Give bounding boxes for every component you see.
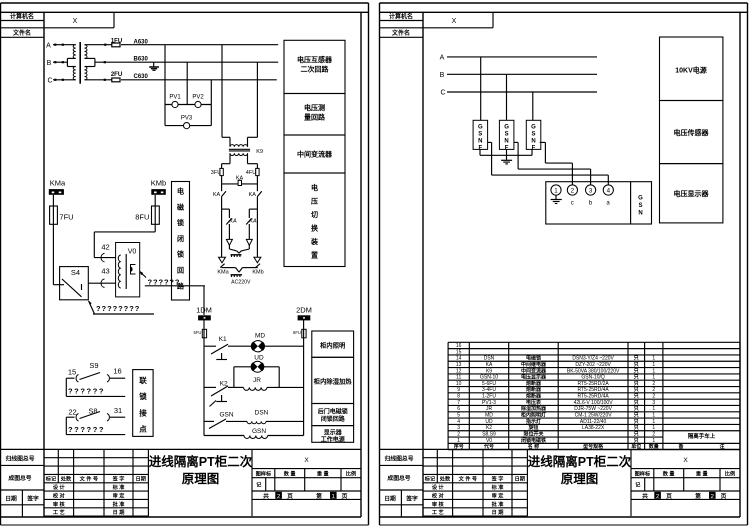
svg-text:柜内照明灯: 柜内照明灯 xyxy=(521,412,546,419)
svg-text:4: 4 xyxy=(607,187,611,194)
sheet 2 title block archive-no cell xyxy=(380,464,424,466)
transformer K9 secondary winding xyxy=(230,153,248,155)
contact 43 plug xyxy=(88,282,115,284)
svg-text:8FU: 8FU xyxy=(135,213,149,222)
wire voltmeter top bus xyxy=(165,104,211,106)
svg-text:4: 4 xyxy=(457,419,460,425)
svg-text:c: c xyxy=(571,201,574,207)
svg-text:N: N xyxy=(531,138,535,144)
svg-text:中间继电器: 中间继电器 xyxy=(521,361,547,368)
svg-text:进线隔离PT柜二次: 进线隔离PT柜二次 xyxy=(149,454,253,469)
svg-text:指示灯: 指示灯 xyxy=(526,418,541,425)
svg-text:7FU: 7FU xyxy=(59,213,73,222)
svg-text:S: S xyxy=(638,203,642,209)
wire 7FU to S4 xyxy=(52,224,54,284)
wire bus A 10kV xyxy=(447,56,597,58)
svg-text:第: 第 xyxy=(316,492,322,500)
leader arrow to S4 note xyxy=(89,301,95,314)
svg-text:C630: C630 xyxy=(134,74,149,80)
svg-text:9: 9 xyxy=(457,387,460,393)
svg-text:只: 只 xyxy=(634,374,639,381)
leader arrow to V0 note xyxy=(140,272,146,278)
terminal block KMa xyxy=(49,189,64,195)
svg-text:RT5-25RD/4A: RT5-25RD/4A xyxy=(577,394,609,400)
sheet 2 title block grid xyxy=(380,448,741,450)
svg-text:只: 只 xyxy=(634,405,639,412)
sheet 1 title block sign rows xyxy=(73,483,75,516)
sheet 1 title block grid xyxy=(1,448,362,450)
svg-text:锁: 锁 xyxy=(176,218,184,227)
switch S4 box xyxy=(60,267,89,300)
svg-text:K1: K1 xyxy=(219,336,227,343)
svg-text:只: 只 xyxy=(634,437,639,444)
connector arrow outer right xyxy=(254,257,261,263)
svg-text:后门电磁锁: 后门电磁锁 xyxy=(318,408,348,416)
svg-text:图样标: 图样标 xyxy=(256,470,272,478)
svg-text:S4: S4 xyxy=(71,268,80,277)
svg-text:量回路: 量回路 xyxy=(304,113,326,122)
svg-text:2: 2 xyxy=(652,431,655,437)
svg-text:设 计: 设 计 xyxy=(53,483,66,491)
svg-text:原理图: 原理图 xyxy=(561,472,599,486)
transformer K9 core xyxy=(229,148,250,150)
svg-text:电压显示器: 电压显示器 xyxy=(521,374,547,381)
svg-text:12: 12 xyxy=(456,368,462,374)
svg-text:处数: 处数 xyxy=(60,475,72,483)
svg-text:比例: 比例 xyxy=(346,470,356,478)
svg-text:KA: KA xyxy=(249,192,257,198)
sheet 1 title block drawing-no cell xyxy=(1,489,45,491)
label box electromagnetic lock circuit xyxy=(172,182,190,301)
svg-text:1: 1 xyxy=(652,413,655,419)
svg-text:??????: ?????? xyxy=(68,425,105,434)
svg-text:审 定: 审 定 xyxy=(492,492,505,500)
svg-text:V0: V0 xyxy=(486,438,492,444)
svg-text:只: 只 xyxy=(634,424,639,431)
svg-text:工 艺: 工 艺 xyxy=(432,508,444,516)
svg-text:A630: A630 xyxy=(134,40,149,46)
label box intermediate transformer xyxy=(284,135,345,173)
svg-text:中间变流器: 中间变流器 xyxy=(521,367,547,374)
voltage sensor GSNF phase A xyxy=(473,120,488,149)
sheet 2 inner frame xyxy=(380,11,748,13)
svg-text:2: 2 xyxy=(652,394,655,400)
label box display working power xyxy=(312,426,354,443)
svg-text:计算机名: 计算机名 xyxy=(389,13,413,21)
svg-text:KMa: KMa xyxy=(217,270,229,276)
svg-text:14: 14 xyxy=(456,356,462,362)
svg-text:2: 2 xyxy=(571,187,575,194)
sheet 1 inner frame xyxy=(1,11,369,13)
terminal 3 xyxy=(586,185,596,195)
svg-text:签 字: 签 字 xyxy=(112,475,125,483)
wire sensor B to terminal 3 xyxy=(514,141,518,143)
svg-text:标记: 标记 xyxy=(424,475,436,483)
label box interlock contacts xyxy=(133,370,153,437)
svg-text:原理图: 原理图 xyxy=(182,472,220,486)
svg-text:G: G xyxy=(531,124,536,130)
svg-text:AD11-22/40: AD11-22/40 xyxy=(580,419,607,425)
svg-text:BK-50VA 380/100/220V: BK-50VA 380/100/220V xyxy=(567,368,620,374)
svg-text:熔断器: 熔断器 xyxy=(526,386,542,393)
contact KA right xyxy=(256,184,258,191)
wire B primary bracket xyxy=(67,57,75,59)
svg-text:闭: 闭 xyxy=(177,234,184,243)
switch S9 note (garbled) xyxy=(65,378,67,396)
svg-text:????????: ???????? xyxy=(96,304,140,313)
contact blade KMb xyxy=(256,264,260,268)
svg-text:电压互感器: 电压互感器 xyxy=(297,55,333,64)
svg-text:8: 8 xyxy=(457,394,460,400)
sheet 1 title block page count row xyxy=(252,498,361,500)
wire sensor earth chain xyxy=(479,149,481,155)
svg-text:KMb: KMb xyxy=(151,179,166,188)
svg-text:42: 42 xyxy=(101,243,109,252)
sheet 2 outer border xyxy=(380,2,748,4)
wire 8FU to contact 42 xyxy=(154,224,156,232)
wire inner branch left xyxy=(222,208,229,210)
svg-text:记: 记 xyxy=(256,481,262,489)
svg-text:N: N xyxy=(638,211,642,217)
svg-text:??????: ?????? xyxy=(68,387,105,396)
svg-text:页: 页 xyxy=(666,492,672,500)
svg-text:重 量: 重 量 xyxy=(317,470,330,478)
svg-text:接: 接 xyxy=(139,407,147,417)
svg-text:7: 7 xyxy=(457,400,460,406)
svg-text:只: 只 xyxy=(634,412,639,419)
svg-text:GSN-10/Q: GSN-10/Q xyxy=(581,375,604,381)
svg-text:UD: UD xyxy=(485,419,493,425)
svg-text:隔离手车上: 隔离手车上 xyxy=(688,432,716,440)
svg-text:切: 切 xyxy=(311,210,318,219)
sheet 2 title block drawing-no cell xyxy=(380,489,424,491)
svg-text:1: 1 xyxy=(554,187,558,194)
wire note line to 1DM rail xyxy=(203,286,205,315)
svg-text:只: 只 xyxy=(634,380,639,387)
svg-text:1: 1 xyxy=(652,438,655,444)
contact KA left xyxy=(221,184,223,191)
svg-text:1: 1 xyxy=(457,438,460,444)
svg-text:PV1-3: PV1-3 xyxy=(482,400,496,406)
voltage sensor GSNF phase C xyxy=(526,120,541,149)
wire A drop to K9 xyxy=(221,45,223,138)
svg-text:10KV电源: 10KV电源 xyxy=(675,66,707,75)
voltage display unit GSN box xyxy=(546,182,652,224)
svg-text:换: 换 xyxy=(311,224,319,233)
svg-text:熔断器: 熔断器 xyxy=(526,380,542,387)
svg-text:进线隔离PT柜二次: 进线隔离PT柜二次 xyxy=(528,454,632,469)
svg-text:电压显示器: 电压显示器 xyxy=(674,189,710,198)
svg-text:1: 1 xyxy=(652,425,655,431)
V0 coil winding xyxy=(118,255,121,288)
svg-text:数 量: 数 量 xyxy=(663,470,676,478)
wire B drop to voltmeters xyxy=(186,62,188,104)
wire 1DM drop xyxy=(203,320,205,329)
svg-text:B: B xyxy=(47,60,52,67)
svg-text:联: 联 xyxy=(139,375,147,385)
svg-text:显示器: 显示器 xyxy=(324,428,343,436)
svg-text:15: 15 xyxy=(456,349,462,355)
svg-text:1: 1 xyxy=(652,356,655,362)
svg-text:DSN3-Y/Z4 ~220V: DSN3-Y/Z4 ~220V xyxy=(572,356,614,362)
svg-text:闭锁回路: 闭锁回路 xyxy=(321,415,346,423)
fuse 7FU xyxy=(50,206,58,224)
plug socket comb lower xyxy=(231,274,243,276)
svg-text:DZY-202 ~220V: DZY-202 ~220V xyxy=(575,362,611,368)
switch S9 contact xyxy=(66,377,74,379)
svg-text:1: 1 xyxy=(652,362,655,368)
svg-text:??????: ?????? xyxy=(148,278,181,287)
svg-text:42L6-V 100/100V: 42L6-V 100/100V xyxy=(574,400,614,406)
svg-text:日 期: 日 期 xyxy=(492,508,504,516)
wire B drop to sensor xyxy=(506,74,508,120)
terminal 4 xyxy=(603,185,613,195)
svg-text:锁: 锁 xyxy=(139,391,147,401)
svg-text:只: 只 xyxy=(634,361,639,368)
label box voltage measuring circuit xyxy=(284,94,345,136)
svg-text:V0: V0 xyxy=(128,248,137,255)
svg-text:装: 装 xyxy=(310,237,318,246)
wire C drop to sensor xyxy=(532,92,534,120)
svg-text:1: 1 xyxy=(652,406,655,412)
svg-text:数 量: 数 量 xyxy=(284,470,297,478)
svg-text:点: 点 xyxy=(139,424,147,434)
svg-text:1-2FU: 1-2FU xyxy=(482,394,496,400)
svg-text:S9: S9 xyxy=(89,361,98,370)
svg-text:5FU: 5FU xyxy=(194,330,202,335)
terminal block 1DM xyxy=(198,315,211,320)
switch S4 wire in xyxy=(53,284,64,286)
sheet 1 header computer-name box xyxy=(1,20,45,22)
sheet 2 header file-name box xyxy=(380,36,424,38)
sheet 1 title block mark/qty/weight/scale cells xyxy=(252,477,361,479)
wire converge to plug xyxy=(228,245,230,249)
svg-text:C: C xyxy=(440,90,445,97)
svg-text:2: 2 xyxy=(457,431,460,437)
svg-text:5-6FU: 5-6FU xyxy=(482,381,496,387)
svg-text:G: G xyxy=(478,124,483,130)
svg-text:3: 3 xyxy=(652,400,655,406)
svg-text:S: S xyxy=(531,131,535,137)
terminal 1 ground xyxy=(555,195,557,199)
sheet 2 title block drawing title xyxy=(630,449,632,516)
svg-text:归线图总号: 归线图总号 xyxy=(385,454,414,462)
wire A drop to voltmeters xyxy=(164,45,166,105)
svg-text:G: G xyxy=(638,196,643,202)
connector arrow inner right xyxy=(246,239,252,245)
svg-text:GSN: GSN xyxy=(219,412,233,419)
svg-text:KA: KA xyxy=(486,362,493,368)
svg-text:2: 2 xyxy=(711,494,714,500)
svg-text:31: 31 xyxy=(114,406,122,415)
svg-text:电磁锁: 电磁锁 xyxy=(526,355,541,362)
wire phase B primary xyxy=(53,61,67,63)
wire bus B 10kV xyxy=(447,73,597,75)
svg-text:磁: 磁 xyxy=(177,202,184,211)
svg-text:C: C xyxy=(47,78,52,85)
sheet 1 title block revision grid xyxy=(44,457,148,459)
svg-text:1: 1 xyxy=(652,375,655,381)
svg-text:成图总号: 成图总号 xyxy=(8,474,31,482)
svg-text:B630: B630 xyxy=(134,57,149,63)
svg-text:AC220V: AC220V xyxy=(231,279,251,285)
svg-text:回: 回 xyxy=(177,266,184,275)
transformer K9 primary winding xyxy=(230,145,248,147)
svg-text:计算机名: 计算机名 xyxy=(10,13,34,21)
svg-text:11: 11 xyxy=(456,375,461,381)
svg-text:锁: 锁 xyxy=(176,250,184,259)
svg-text:B: B xyxy=(440,72,445,79)
svg-text:K2: K2 xyxy=(486,425,492,431)
svg-text:X: X xyxy=(683,457,688,464)
label box voltage switching device xyxy=(284,173,345,267)
svg-text:S8,S9: S8,S9 xyxy=(482,431,496,437)
svg-text:电压测: 电压测 xyxy=(304,103,325,112)
svg-text:批 准: 批 准 xyxy=(113,500,126,508)
svg-text:页: 页 xyxy=(721,492,727,500)
V0 core bar xyxy=(125,254,127,289)
svg-text:JR: JR xyxy=(253,377,261,384)
svg-text:K9: K9 xyxy=(486,368,492,374)
svg-text:13: 13 xyxy=(456,362,462,368)
svg-text:MD: MD xyxy=(485,413,493,419)
svg-text:X: X xyxy=(73,18,78,25)
svg-text:MD: MD xyxy=(255,332,265,339)
label box rear door lock circuit xyxy=(312,404,354,426)
svg-text:KMa: KMa xyxy=(50,179,66,188)
wire phase A primary xyxy=(53,44,76,46)
svg-text:1DM: 1DM xyxy=(196,305,212,314)
svg-text:3: 3 xyxy=(457,425,460,431)
sheet 2 title block mark/qty/weight/scale cells xyxy=(631,477,740,479)
svg-text:只: 只 xyxy=(634,399,639,406)
transformer T1 secondary winding a-b xyxy=(85,45,88,59)
sheet 2 title block drawing number X xyxy=(631,468,740,470)
svg-text:旋钮: 旋钮 xyxy=(527,424,538,431)
label box 10KV supply xyxy=(660,37,723,101)
svg-text:JR: JR xyxy=(486,406,493,412)
svg-text:路: 路 xyxy=(177,281,185,290)
sheet 1 title block archive-no cell xyxy=(1,464,45,466)
terminal block KMb xyxy=(151,189,166,195)
svg-text:标记: 标记 xyxy=(45,475,57,483)
svg-text:置: 置 xyxy=(311,251,318,260)
svg-text:X: X xyxy=(452,18,457,25)
sheet 1 title block drawing title xyxy=(251,449,253,516)
svg-text:图样标: 图样标 xyxy=(635,470,651,478)
svg-text:只: 只 xyxy=(634,393,639,400)
sheet 2 title block date/sign cells xyxy=(380,504,424,506)
svg-text:标 准: 标 准 xyxy=(491,483,505,491)
svg-text:文件名: 文件名 xyxy=(12,29,31,37)
svg-text:RT5-25RD/4A: RT5-25RD/4A xyxy=(577,387,609,393)
svg-text:处数: 处数 xyxy=(439,475,451,483)
label box cabinet heater xyxy=(312,357,354,403)
svg-text:2: 2 xyxy=(652,387,655,393)
svg-text:16: 16 xyxy=(113,366,121,375)
svg-text:日 期: 日 期 xyxy=(113,508,125,516)
plug socket comb upper xyxy=(231,254,242,256)
switch S4 blade xyxy=(62,279,82,297)
svg-text:2: 2 xyxy=(656,494,659,500)
svg-text:电压传感器: 电压传感器 xyxy=(674,128,710,137)
svg-text:2: 2 xyxy=(277,494,280,500)
svg-text:二次回路: 二次回路 xyxy=(301,65,330,74)
connector arrow inner left xyxy=(226,239,232,245)
sheet 2 title block sign rows xyxy=(452,483,454,516)
svg-text:A: A xyxy=(46,43,51,50)
svg-text:页: 页 xyxy=(287,492,293,500)
wire voltmeter loop xyxy=(164,105,166,126)
svg-text:只: 只 xyxy=(634,367,639,374)
wire B630 secondary phase b xyxy=(95,61,278,63)
svg-text:签字: 签字 xyxy=(405,495,418,503)
svg-text:中间变流器: 中间变流器 xyxy=(297,150,333,159)
svg-text:共: 共 xyxy=(263,492,269,500)
svg-text:工 艺: 工 艺 xyxy=(53,508,65,516)
wire B drop to K9 xyxy=(256,62,258,137)
sheet 2 title block page count row xyxy=(631,498,740,500)
wire switching bus xyxy=(221,176,223,184)
wire K9 secondary leads xyxy=(229,153,231,163)
svg-text:柜内照明: 柜内照明 xyxy=(320,341,345,350)
contact 42 plug xyxy=(94,257,115,259)
svg-text:2DM: 2DM xyxy=(296,305,312,314)
svg-text:只: 只 xyxy=(634,430,639,437)
svg-text:日期: 日期 xyxy=(136,475,146,483)
V0 armature xyxy=(131,265,136,275)
svg-text:5: 5 xyxy=(457,413,460,419)
svg-text:GSN-10: GSN-10 xyxy=(480,375,498,381)
sheet 2 header computer-name value X xyxy=(492,12,494,27)
connector arrow outer left xyxy=(219,257,226,263)
sheet 1 header computer-name value X xyxy=(113,12,115,27)
ground sensor B xyxy=(506,149,508,160)
wire C630 secondary phase c xyxy=(85,79,113,81)
svg-text:X: X xyxy=(304,457,309,464)
svg-text:16: 16 xyxy=(456,343,462,349)
svg-text:文 件 号: 文 件 号 xyxy=(459,475,477,483)
svg-text:N: N xyxy=(478,138,482,144)
svg-text:成图总号: 成图总号 xyxy=(387,474,410,482)
sheet 1 title block drawing number X xyxy=(252,468,361,470)
svg-text:只: 只 xyxy=(634,355,639,362)
svg-text:DJR-75W ~220V: DJR-75W ~220V xyxy=(574,406,612,412)
svg-text:1: 1 xyxy=(332,494,335,500)
svg-text:6FU: 6FU xyxy=(293,330,301,335)
wire right rail DM xyxy=(303,336,305,436)
svg-text:文件名: 文件名 xyxy=(391,29,410,37)
svg-text:电压表: 电压表 xyxy=(526,399,542,406)
svg-text:设 计: 设 计 xyxy=(432,483,445,491)
svg-text:文 件 号: 文 件 号 xyxy=(80,475,98,483)
svg-text:PV2: PV2 xyxy=(192,95,204,101)
svg-text:10: 10 xyxy=(456,381,462,387)
transformer T1 primary winding B-C xyxy=(73,67,76,80)
wire sensor A to terminal 4 xyxy=(488,141,492,143)
svg-text:43: 43 xyxy=(101,267,109,276)
svg-text:共: 共 xyxy=(642,492,648,500)
wire C drop to voltmeters xyxy=(210,80,212,105)
transformer T1 primary winding A-B xyxy=(73,45,76,59)
svg-text:只: 只 xyxy=(634,418,639,425)
svg-text:N: N xyxy=(504,138,508,144)
svg-text:日期: 日期 xyxy=(384,495,396,503)
terminal 2 xyxy=(567,185,577,195)
switch S8 contact xyxy=(66,416,74,418)
svg-text:柜内除湿加热: 柜内除湿加热 xyxy=(314,377,352,386)
switch S8 note (garbled) xyxy=(65,417,67,434)
